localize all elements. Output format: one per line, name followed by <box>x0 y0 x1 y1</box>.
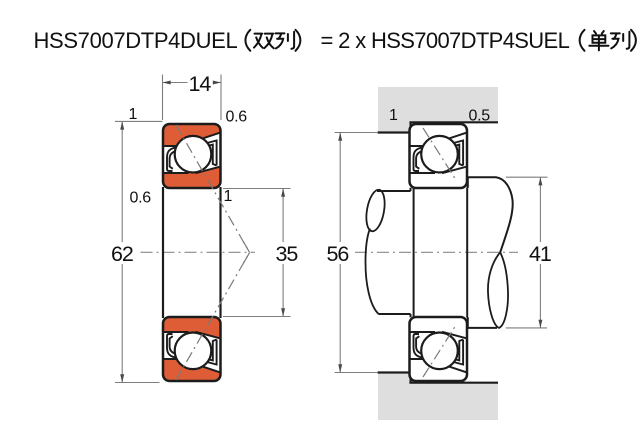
housing bottom shoulder line <box>378 373 411 383</box>
dimension 56 extension lines <box>335 133 378 373</box>
dimension 14 extension lines <box>163 75 222 121</box>
dimension 56 text <box>325 242 352 264</box>
shaft left section bottom edge <box>379 314 411 317</box>
shaft break line right (loop) <box>488 252 508 328</box>
housing bottom bore line <box>409 382 498 384</box>
svg-text:1: 1 <box>224 188 233 205</box>
bore line right <box>219 187 221 318</box>
fullwidth open paren <box>580 30 585 51</box>
fullwidth close paren <box>296 30 301 51</box>
dimension 35 text <box>272 242 299 264</box>
fullwidth open paren <box>245 30 250 51</box>
centerline horizontal right <box>333 251 518 253</box>
housing top bore line <box>409 121 498 123</box>
dimension 41 text <box>526 242 553 264</box>
svg-text:= 2 x HSS7007DTP4SUEL: = 2 x HSS7007DTP4SUEL <box>321 28 570 53</box>
housing block top <box>378 87 498 131</box>
right bearing bottom cross-section <box>410 317 468 381</box>
dimension 41 extension lines <box>506 177 548 328</box>
contact angle line lower <box>176 253 250 380</box>
svg-text:41: 41 <box>529 242 551 266</box>
left bearing bottom cross-section (orange rings) <box>163 317 221 381</box>
housing top shoulder line <box>378 122 411 132</box>
svg-text:56: 56 <box>327 242 350 266</box>
dimension 62 line <box>121 121 123 382</box>
dimension 56 line <box>339 133 341 373</box>
dimension 35 line <box>282 189 284 317</box>
contact line bottom ball <box>423 325 456 377</box>
svg-text:62: 62 <box>111 242 133 266</box>
svg-text:0.6: 0.6 <box>130 190 152 207</box>
dimension 62 text <box>108 242 135 264</box>
dimension 41 line <box>539 177 541 328</box>
svg-text:HSS7007DTP4DUEL: HSS7007DTP4DUEL <box>34 28 238 53</box>
housing block bottom <box>378 374 498 420</box>
centerline horizontal <box>141 251 256 253</box>
shaft left section top edge <box>377 188 411 191</box>
svg-text:0.5: 0.5 <box>469 108 491 125</box>
shaft break line left (loop) <box>363 188 387 232</box>
shaft shoulder right face line <box>466 188 468 318</box>
shaft right section shoulder face <box>467 177 469 328</box>
dimension 14 text <box>188 72 214 92</box>
dimension 35 extension lines <box>223 189 291 317</box>
svg-text:1: 1 <box>129 106 138 123</box>
CJK char shuang <box>254 34 274 49</box>
shaft break line left (tail) <box>365 229 379 315</box>
svg-text:0.6: 0.6 <box>226 109 248 126</box>
shaft right section top edge <box>468 177 513 252</box>
shaft right section bottom edge <box>468 327 497 329</box>
shaft shoulder left face line <box>413 188 415 318</box>
svg-text:1: 1 <box>389 107 398 124</box>
svg-text:35: 35 <box>276 242 299 266</box>
CJK char lie <box>611 32 630 49</box>
title <box>34 28 636 53</box>
right bearing top cross-section <box>410 124 468 188</box>
bore line left <box>162 187 164 318</box>
contact apex arms <box>244 242 250 263</box>
dimension 14 line <box>163 82 222 84</box>
CJK char dan <box>589 31 608 50</box>
CJK char lie <box>276 32 295 49</box>
contact line top ball <box>423 128 456 180</box>
contact angle line upper <box>176 125 250 252</box>
dimension 62 extension lines <box>115 121 163 382</box>
svg-text:14: 14 <box>189 72 212 96</box>
fullwidth close paren <box>631 30 636 51</box>
left bearing top cross-section (orange rings) <box>163 124 221 188</box>
